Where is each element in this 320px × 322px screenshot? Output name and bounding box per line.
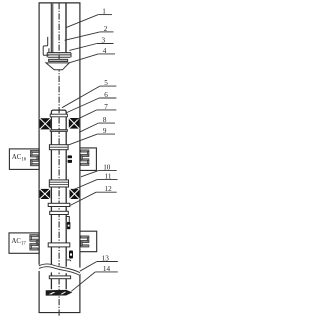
- label 7 leader: [76, 110, 97, 120]
- receiver bracket R2 right: [80, 231, 96, 252]
- label 14: [95, 271, 118, 273]
- label 4 leader: [69, 54, 99, 63]
- label 1 leader: [66, 15, 98, 28]
- label 2: [100, 31, 114, 33]
- body joint band 4: [50, 211, 69, 214]
- svg-text:5: 5: [104, 79, 108, 87]
- label 8: [98, 122, 115, 124]
- label 12: [96, 191, 117, 193]
- svg-text:8: 8: [103, 116, 107, 124]
- tool body right edge: [65, 113, 67, 267]
- casing wall right: [79, 3, 81, 313]
- body coupling 5: [49, 276, 70, 279]
- tool body left edge: [50, 113, 52, 266]
- svg-text:4: 4: [103, 47, 107, 55]
- label 1: [98, 14, 112, 16]
- body collar c1: [48, 203, 70, 206]
- transducer T2 bracket: [66, 217, 69, 222]
- label 10: [99, 169, 117, 171]
- flange plate stack: [47, 52, 71, 54]
- receiver spring S2 right: [81, 236, 89, 247]
- label 5: [100, 85, 117, 87]
- tool body top cap: [51, 110, 66, 114]
- cable tube right edge: [65, 3, 67, 53]
- break wave line upper: [39, 264, 80, 273]
- svg-text:1: 1: [102, 8, 106, 16]
- body collar c2: [48, 243, 70, 247]
- centralizer bowtie row1 left: [40, 118, 51, 129]
- label 6: [99, 97, 116, 99]
- funnel cone: [46, 63, 69, 70]
- transducer T2: [67, 222, 71, 229]
- label 11: [97, 178, 117, 180]
- label 9: [97, 133, 115, 135]
- label 13 leader: [80, 262, 97, 272]
- cable clamp hook bracket: [43, 37, 49, 55]
- receiver bracket R1 right: [80, 148, 96, 171]
- label 11 leader: [73, 179, 98, 190]
- body coupling 3: [49, 180, 68, 187]
- break wave line lower: [39, 267, 80, 276]
- tool axis centerline lower: [58, 273, 60, 318]
- svg-text:13: 13: [102, 255, 110, 263]
- transducer T3 lower ledge: [66, 260, 70, 261]
- label 4: [98, 53, 115, 55]
- label 6 leader: [66, 98, 99, 113]
- casing wall left: [38, 3, 40, 313]
- receiver spring S1 left: [31, 150, 39, 166]
- label 2 leader: [65, 32, 100, 40]
- centralizer bowtie row2 left: [40, 189, 51, 199]
- body joint band 1: [50, 130, 67, 132]
- break wave erase band: [39, 264, 80, 276]
- label 5 leader: [62, 86, 100, 108]
- label 10 leader: [81, 170, 99, 176]
- svg-text:14: 14: [103, 265, 111, 273]
- svg-text:2: 2: [104, 25, 108, 33]
- label 3 leader: [69, 44, 96, 51]
- nose slab wedge: [46, 290, 72, 295]
- svg-text:9: 9: [103, 127, 107, 135]
- flange lower plate: [49, 59, 68, 61]
- nose slab white window right: [60, 292, 66, 295]
- svg-text:11: 11: [105, 172, 112, 180]
- centralizer bowtie row2 right: [70, 189, 80, 199]
- label 9 leader: [69, 134, 98, 145]
- label 12 leader: [70, 192, 96, 205]
- casing top line: [39, 2, 81, 4]
- transducer T1: [68, 155, 72, 163]
- svg-text:6: 6: [104, 91, 108, 99]
- svg-text:10: 10: [103, 163, 111, 171]
- body coupling 2: [49, 145, 68, 150]
- label 3: [97, 43, 114, 45]
- label 14 leader: [71, 272, 95, 291]
- tool axis centerline: [58, 3, 60, 266]
- transducer T3: [69, 251, 73, 259]
- svg-text:12: 12: [105, 185, 113, 193]
- casing bottom line: [39, 312, 81, 314]
- label 8 leader: [79, 123, 98, 132]
- label 13: [97, 261, 118, 263]
- label 7: [97, 109, 117, 111]
- svg-text:3: 3: [102, 37, 106, 45]
- AC17 box: [9, 233, 39, 253]
- nose slab white window left: [49, 292, 56, 294]
- cable tube left edge: [51, 3, 53, 53]
- centralizer bowtie row1 right: [69, 118, 80, 129]
- receiver spring S1 right: [81, 150, 89, 166]
- receiver spring S2 left: [30, 235, 38, 250]
- body collar below cap: [50, 114, 67, 117]
- AC16 box: [9, 149, 39, 170]
- svg-text:7: 7: [104, 103, 108, 111]
